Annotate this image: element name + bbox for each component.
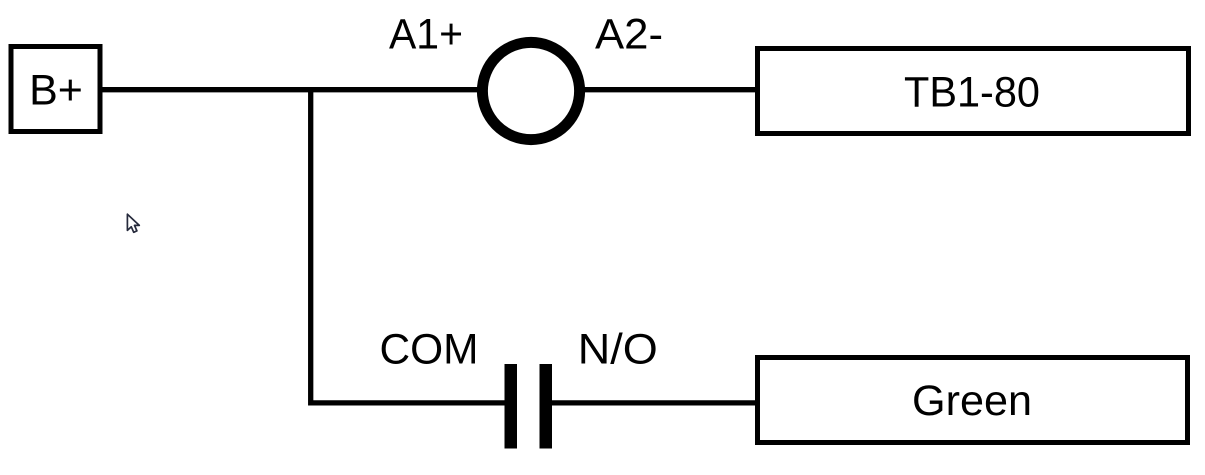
svg-text:B+: B+ bbox=[29, 67, 83, 115]
mouse cursor bbox=[127, 214, 139, 232]
terminal box Green bbox=[758, 358, 1188, 443]
svg-text:TB1-80: TB1-80 bbox=[904, 69, 1040, 117]
svg-text:N/O: N/O bbox=[578, 326, 658, 374]
svg-text:COM: COM bbox=[380, 326, 479, 374]
svg-text:A1+: A1+ bbox=[389, 11, 463, 59]
terminal box TB1-80 bbox=[758, 49, 1189, 134]
svg-text:A2-: A2- bbox=[595, 11, 663, 59]
terminal box B+ bbox=[11, 47, 100, 132]
svg-text:Green: Green bbox=[912, 377, 1032, 425]
wire W1: B+ to coil to TB1-80 (horizontal run) bbox=[99, 87, 757, 92]
contact S1 bar COM-side bbox=[505, 364, 518, 449]
contact S1 bar N/O-side bbox=[540, 364, 553, 449]
wire W3: N/O contact to Green box bbox=[550, 400, 757, 405]
wire W2: vertical branch from node J1 down and across to COM contact bbox=[311, 88, 506, 403]
coil K1 (relay coil circle) bbox=[482, 42, 579, 139]
